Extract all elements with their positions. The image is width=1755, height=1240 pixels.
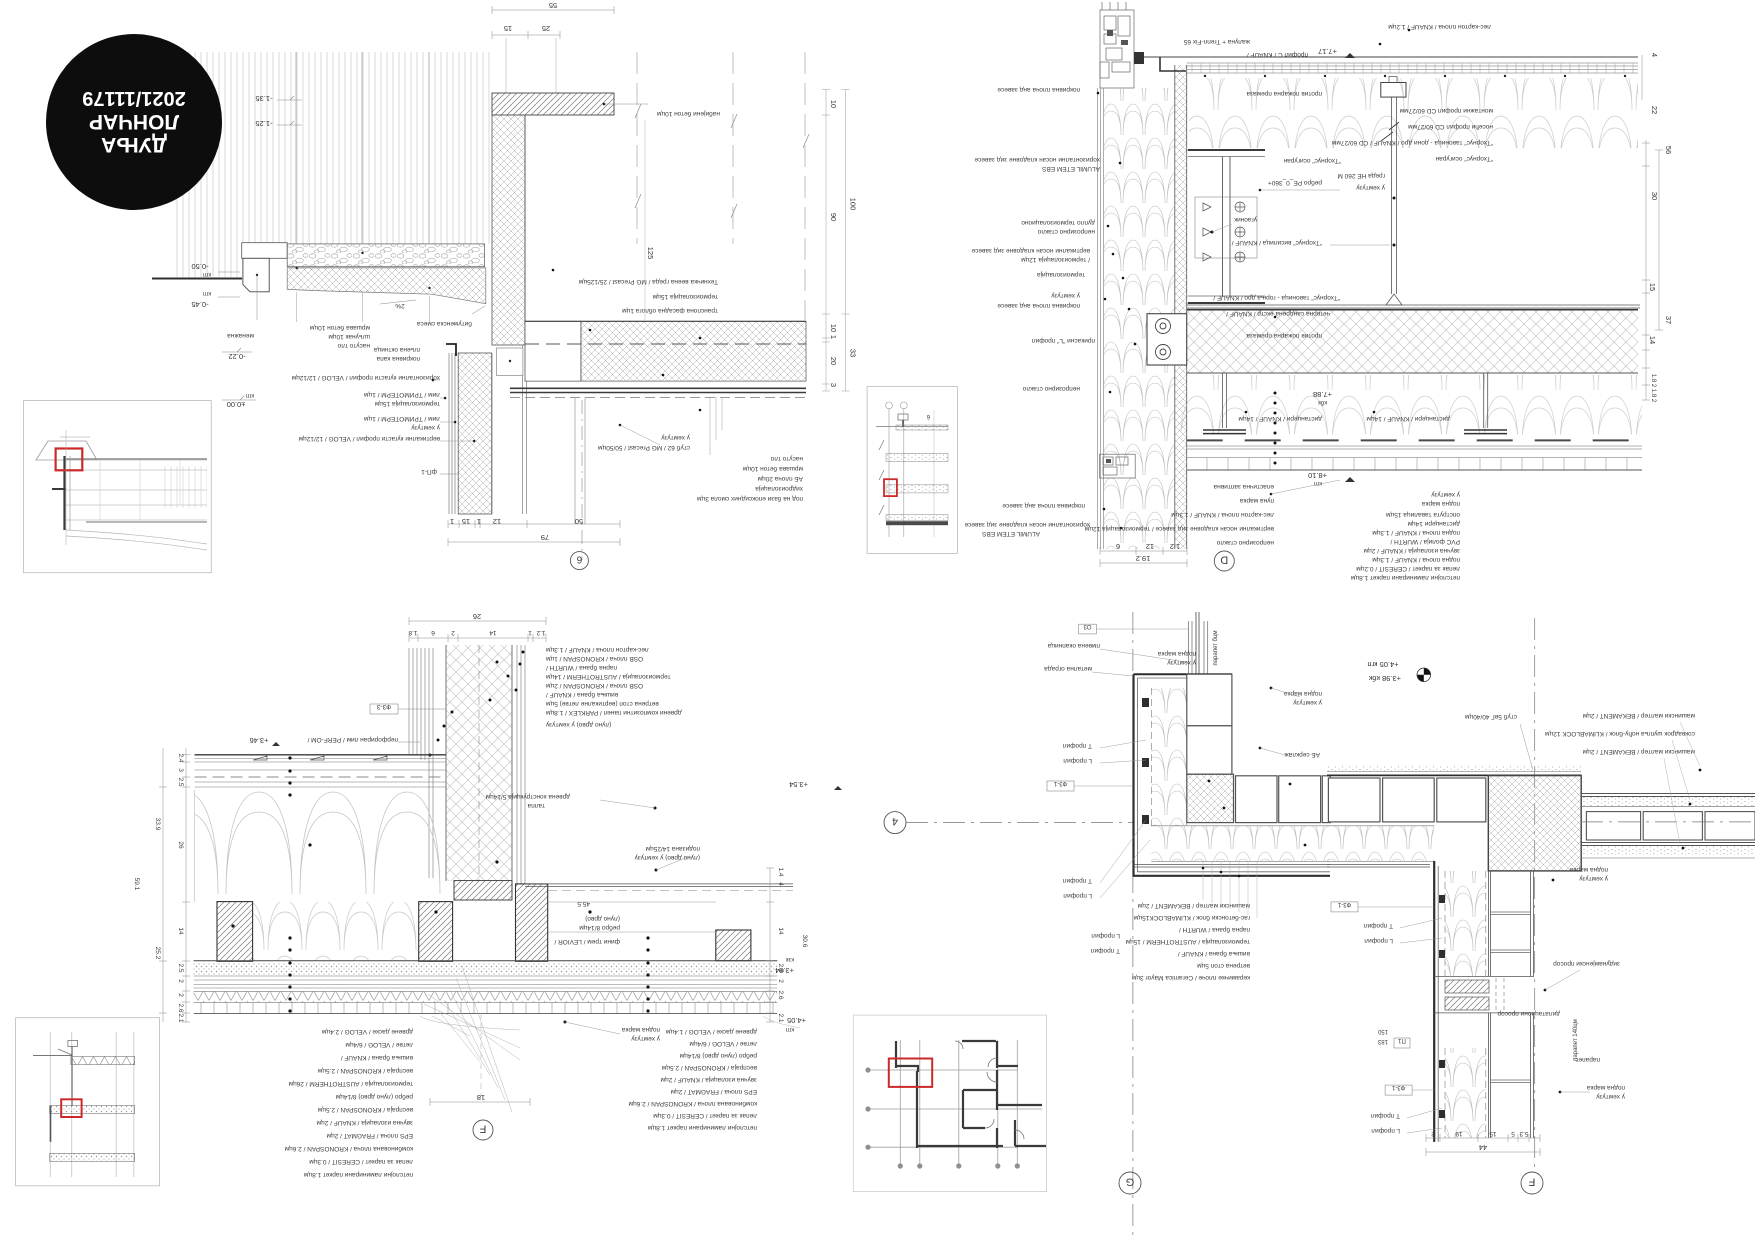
svg-text:парапет бцм: парапет бцм <box>1213 630 1219 665</box>
svg-text:менажна: менажна <box>227 332 254 339</box>
svg-text:непрозирно стакло: непрозирно стакло <box>1022 385 1080 392</box>
svg-text:кбк: кбк <box>1318 399 1327 405</box>
svg-text:у хемтузу: у хемтузу <box>1050 292 1080 299</box>
svg-text:15: 15 <box>1489 1130 1497 1137</box>
left annotation cluster of wall <box>291 374 440 381</box>
svg-text:непрозирно стакло: непрозирно стакло <box>1037 228 1095 235</box>
vertical dash-dot grid through G <box>1132 612 1134 1240</box>
leaders to lower labels <box>297 292 430 322</box>
svg-text:насуто тло: насуто тло <box>337 342 370 349</box>
svg-text:F: F <box>479 1123 486 1135</box>
second loop band with rafters <box>253 902 419 961</box>
top labels <box>1183 38 1250 45</box>
svg-text:у хемтузу: у хемтузу <box>1355 184 1385 191</box>
svg-text:15: 15 <box>1648 283 1657 291</box>
svg-text:2: 2 <box>177 979 184 983</box>
level -0.50 <box>191 262 208 271</box>
svg-text:1.2: 1.2 <box>1170 542 1180 551</box>
svg-text:у хемтузу: у хемтузу <box>1430 491 1460 498</box>
svg-text:дрвене даске / VELOG / 1.4цм: дрвене даске / VELOG / 1.4цм <box>665 1028 757 1035</box>
stamp: black circle with student name, rotated 180 <box>46 34 222 210</box>
slab bottom double line <box>510 388 806 392</box>
bottom-right cluster <box>1430 491 1460 498</box>
beam label <box>656 110 720 118</box>
leader fan lines from strata to text <box>420 966 800 1112</box>
expansion joint zone <box>1434 977 1534 1013</box>
svg-text:22: 22 <box>1650 106 1659 114</box>
svg-text:2.5: 2.5 <box>177 777 184 786</box>
svg-text:2.4: 2.4 <box>177 753 184 762</box>
svg-text:EPS плоча / FRAGMAT / 2цм: EPS плоча / FRAGMAT / 2цм <box>326 1132 413 1139</box>
svg-text:19.2: 19.2 <box>1136 554 1151 563</box>
svg-text:OSB плоча / KRONOSPAN / 1цм: OSB плоча / KRONOSPAN / 1цм <box>545 655 643 662</box>
svg-text:соквадрок шупља ноћу-блок / KL: соквадрок шупља ноћу-блок / KLIMABLOCK 1… <box>1545 730 1695 738</box>
svg-text:транспона фасадна облога 1цм: транспона фасадна облога 1цм <box>622 307 718 315</box>
svg-text:(луно дрво) у хемтузу: (луно дрво) у хемтузу <box>634 854 700 861</box>
svg-text:лим / ТРИМОТЕРМ / 1цм: лим / ТРИМОТЕРМ / 1цм <box>364 415 440 422</box>
middle band <box>50 1106 135 1114</box>
svg-text:+3.54: +3.54 <box>789 780 808 789</box>
svg-text:(луно дрво) у хемтузу: (луно дрво) у хемтузу <box>545 721 611 728</box>
ground line <box>152 278 242 280</box>
svg-text:звучна изолација / KNAUF / 2цм: звучна изолација / KNAUF / 2цм <box>660 1076 757 1083</box>
pokrivna kapa labels <box>374 346 420 353</box>
ceiling plasterboard below beams <box>1187 305 1640 308</box>
svg-text:против пожарна премаза: против пожарна премаза <box>1246 90 1322 97</box>
svg-text:талпа: талпа <box>527 802 545 809</box>
dots columns <box>231 756 649 1012</box>
drvena konstrukcija label <box>485 793 570 800</box>
facade wall cladding lines <box>1098 88 1104 549</box>
F3-1 labels <box>1331 902 1358 912</box>
svg-text:79: 79 <box>541 533 549 542</box>
right labels <box>1399 107 1493 114</box>
svg-text:20: 20 <box>829 357 838 365</box>
svg-text:6: 6 <box>576 554 582 565</box>
bottom-left cluster <box>1213 483 1274 490</box>
svg-text:хоризонтални кугасти профил /: хоризонтални кугасти профил / VELOG / 12… <box>291 374 440 381</box>
svg-text:кгп: кгп <box>786 1026 794 1032</box>
svg-text:звучна изолација / KNAUF / 2цм: звучна изолација / KNAUF / 2цм <box>1363 547 1460 554</box>
bottom dims F <box>1426 1137 1540 1139</box>
svg-text:АБ плоча 20цм: АБ плоча 20цм <box>757 475 803 482</box>
svg-text:3: 3 <box>177 768 184 772</box>
svg-text:59.1: 59.1 <box>133 878 140 891</box>
svg-text:петслојни ламинирани паркет 1.: петслојни ламинирани паркет 1.8цм <box>647 1124 757 1131</box>
+3.46 and perforirani lim <box>250 736 269 745</box>
svg-text:25: 25 <box>542 24 550 33</box>
svg-text:1: 1 <box>528 629 532 636</box>
svg-text:жалуна + Trenn-Fix 65: жалуна + Trenn-Fix 65 <box>1183 38 1250 45</box>
svg-text:хидроизолација: хидроизолација <box>755 485 803 492</box>
inner lines <box>1134 865 1331 868</box>
level -1.35 <box>255 94 272 103</box>
svg-text:парапет 140цм: парапет 140цм <box>1573 1019 1579 1061</box>
svg-text:подна марка: подна марка <box>1587 1084 1625 1091</box>
slab xps band <box>1187 310 1638 373</box>
svg-text:насуто тло: насуто тло <box>770 455 803 462</box>
svg-text:вишња брана / KNAUF /: вишња брана / KNAUF / <box>341 1054 413 1062</box>
svg-text:стуб 62 / MG Precast / 50/50цм: стуб 62 / MG Precast / 50/50цм <box>597 444 690 452</box>
svg-text:33: 33 <box>849 349 858 357</box>
dashed line <box>1187 439 1642 441</box>
stub label <box>1464 713 1517 721</box>
floor strata <box>194 960 778 962</box>
svg-text:L профил: L профил <box>1091 932 1120 939</box>
svg-text:2: 2 <box>177 993 184 997</box>
svg-text:2: 2 <box>777 979 784 983</box>
svg-text:веспраја / KRONOSPAN / 2.5цм: веспраја / KRONOSPAN / 2.5цм <box>317 1067 413 1074</box>
svg-text:кзк: кзк <box>786 956 794 962</box>
dashed stud line in wall <box>478 645 480 881</box>
svg-text:пуна марка: пуна марка <box>1240 497 1274 504</box>
svg-text:G: G <box>1126 1176 1135 1188</box>
svg-text:шљунак 10цм: шљунак 10цм <box>328 333 370 340</box>
svg-text:монтажни профил CD 60/27мм: монтажни профил CD 60/27мм <box>1399 107 1493 114</box>
terrace slab band (xps) <box>581 321 806 381</box>
svg-text:у хемтузу: у хемтузу <box>1595 1093 1625 1100</box>
svg-text:четврна сандрена екстр / KNAUF: четврна сандрена екстр / KNAUF / <box>1226 310 1330 317</box>
plasterboard layers <box>1187 446 1642 458</box>
outer wall edge thick L <box>1134 674 1331 876</box>
dim 18 and circled F <box>430 1101 530 1103</box>
svg-text:у хемтузу: у хемтузу <box>1578 875 1608 882</box>
svg-text:100: 100 <box>849 198 858 211</box>
150 / 183 / P1 labels <box>1377 1028 1388 1034</box>
zigzag strip vertical <box>1445 871 1486 976</box>
wavy strip below blocks <box>1151 826 1330 862</box>
svg-text:26: 26 <box>177 841 184 849</box>
svg-text:Ф3-1: Ф3-1 <box>1391 1084 1405 1090</box>
svg-text:у хемтузу: у хемтузу <box>1166 659 1196 666</box>
svg-text:15: 15 <box>504 24 512 33</box>
svg-text:1.8: 1.8 <box>408 629 417 636</box>
svg-text:5.3: 5.3 <box>1519 1130 1528 1137</box>
svg-text:L профил: L профил <box>1364 937 1393 944</box>
labels left <box>1047 642 1100 649</box>
svg-text:"Тхорнус" висилица / KNAUF /: "Тхорнус" висилица / KNAUF / <box>1231 239 1322 246</box>
svg-text:вишња брана / KNAUF /: вишња брана / KNAUF / <box>546 691 618 699</box>
svg-text:15: 15 <box>462 517 470 526</box>
svg-text:Ф3-1: Ф3-1 <box>1337 901 1351 907</box>
svg-text:+3.98 кбк: +3.98 кбк <box>1368 674 1401 683</box>
bottom text cluster G <box>1125 902 1250 981</box>
bitumen label <box>417 320 472 328</box>
svg-text:2.5: 2.5 <box>177 963 184 972</box>
svg-text:Т профил: Т профил <box>1370 1112 1400 1119</box>
darker vertical guide lines within hatch <box>296 52 429 243</box>
T/L profil labels next to F <box>1363 922 1393 929</box>
svg-text:L профил: L профил <box>1063 757 1092 764</box>
svg-text:5: 5 <box>1511 1130 1515 1137</box>
125 vertical dim <box>644 120 646 320</box>
right slab labels <box>578 278 718 285</box>
xps corner block <box>1187 774 1234 822</box>
right dim chain <box>769 868 771 1022</box>
svg-text:пљена октница: пљена октница <box>374 346 420 353</box>
svg-text:2: 2 <box>451 629 455 636</box>
svg-text:гас-бетонски блок / KLIMABLOCK: гас-бетонски блок / KLIMABLOCK15цм <box>1133 914 1250 922</box>
leader dots column <box>1274 392 1277 465</box>
big insulation loops region <box>195 790 445 902</box>
bottom dims <box>1100 550 1187 552</box>
concrete beam white step <box>525 321 581 381</box>
svg-text:дрвена конструкција 5/14цм: дрвена конструкција 5/14цм <box>485 793 570 800</box>
kerb upper step <box>242 243 288 259</box>
lower window profile <box>1100 454 1136 478</box>
svg-text:2: 2 <box>1431 1130 1435 1137</box>
svg-text:кгп: кгп <box>203 290 211 296</box>
svg-text:1: 1 <box>450 517 454 526</box>
svg-text:14: 14 <box>177 927 184 935</box>
beam hatched (nabijeni beton) <box>492 93 614 115</box>
roof line <box>33 1055 72 1057</box>
svg-text:3: 3 <box>829 383 838 387</box>
svg-text:ребро (луно дрво) 8/14цм: ребро (луно дрво) 8/14цм <box>335 1093 413 1101</box>
svg-text:(луно дрво): (луно дрво) <box>585 915 620 922</box>
svg-text:Т профил: Т профил <box>1062 742 1092 749</box>
level +-0.00 <box>227 400 246 409</box>
svg-text:веспраја / KRONOSPAN / 2.5цм: веспраја / KRONOSPAN / 2.5цм <box>317 1106 413 1113</box>
level +8.10 <box>1308 471 1327 480</box>
level -1.25 <box>255 119 272 128</box>
svg-text:термоизолација 15цм: термоизолација 15цм <box>374 400 440 407</box>
dashed line below slab <box>510 397 806 399</box>
svg-text:парна брана / WURTH /: парна брана / WURTH / <box>546 664 617 672</box>
svg-text:набијени бетон 10цм: набијени бетон 10цм <box>656 110 720 118</box>
parapet labels <box>1497 1010 1560 1017</box>
ceiling void insulation <box>1189 78 1638 148</box>
svg-text:Т профил: Т профил <box>1363 922 1393 929</box>
slabs <box>886 453 948 520</box>
insulation zigzag strip vertical <box>1151 688 1187 826</box>
svg-text:±0.00: ±0.00 <box>227 400 246 409</box>
svg-text:подна плоча / KNAUF / 1.3цм: подна плоча / KNAUF / 1.3цм <box>1372 556 1460 563</box>
insulation band under slab with hangers <box>1181 375 1642 434</box>
svg-text:37: 37 <box>1664 316 1673 324</box>
svg-text:30: 30 <box>1650 192 1659 200</box>
svg-text:фП-1: фП-1 <box>421 468 437 475</box>
svg-text:56: 56 <box>1664 146 1673 154</box>
steel I-beam <box>1188 149 1265 151</box>
svg-text:ветрена стоп (вертикалне летве: ветрена стоп (вертикалне летве) 5цм <box>545 700 658 707</box>
svg-text:покривна плоча анд завесе: покривна плоча анд завесе <box>1002 502 1085 509</box>
svg-text:стуб 5вГ 40/40цм: стуб 5вГ 40/40цм <box>1464 713 1517 721</box>
svg-text:1.4: 1.4 <box>777 867 784 876</box>
masonry blocks column <box>1187 674 1232 774</box>
dark corner piece at wall/ceiling <box>1134 52 1144 64</box>
L bracket with bolts <box>1147 314 1187 365</box>
svg-text:12: 12 <box>1146 542 1154 551</box>
top hatched band <box>71 1056 135 1064</box>
svg-text:1: 1 <box>477 517 481 526</box>
svg-text:4: 4 <box>777 882 784 886</box>
stone ballast band <box>287 244 484 267</box>
svg-text:+7.17: +7.17 <box>1318 47 1337 56</box>
svg-text:D: D <box>1220 554 1228 566</box>
inner corner lines <box>1327 865 1430 868</box>
svg-text:О3: О3 <box>1083 623 1092 629</box>
bottom left text column <box>284 1028 413 1178</box>
svg-text:ветрена стоп 5цм: ветрена стоп 5цм <box>1197 962 1250 969</box>
svg-text:10: 10 <box>829 100 838 108</box>
top dimension 55 <box>492 9 614 11</box>
svg-text:10: 10 <box>829 324 838 332</box>
menazna label <box>227 332 254 339</box>
svg-text:6: 6 <box>431 629 435 636</box>
svg-text:PVC фолија / WURTH /: PVC фолија / WURTH / <box>1390 538 1460 545</box>
clips on left inner face of vertical wall <box>1439 895 1445 1118</box>
svg-text:"Тхорнус" осигуран: "Тхорнус" осигуран <box>1435 155 1493 162</box>
left dim chain <box>163 748 186 1022</box>
right wing of wall <box>1581 794 1755 797</box>
rafter blocks diag hatch <box>217 902 253 962</box>
facade ticks <box>879 440 884 515</box>
svg-text:мршава бетон 10цм: мршава бетон 10цм <box>309 324 370 332</box>
svg-text:подна марка: подна марка <box>1158 650 1196 657</box>
svg-text:прикасни "L" профил: прикасни "L" профил <box>1032 337 1095 344</box>
svg-text:/ термоизолација 12цм: / термоизолација 12цм <box>1021 256 1090 263</box>
level -0.45 <box>203 290 211 296</box>
section body light lines <box>66 460 207 520</box>
svg-text:веспраја / KRONOSPAN / 2.5цм: веспраја / KRONOSPAN / 2.5цм <box>661 1064 757 1071</box>
podna marka labels <box>1570 866 1608 873</box>
svg-text:ребро (луно дрво) 8/14цм: ребро (луно дрво) 8/14цм <box>679 1052 757 1060</box>
svg-text:термоизолација: термоизолација <box>1037 271 1085 278</box>
2% slope label <box>395 302 405 309</box>
svg-text:L профил: L профил <box>1371 1127 1400 1134</box>
svg-text:183: 183 <box>1377 1038 1388 1044</box>
G bubble <box>1119 1172 1141 1194</box>
column below slab <box>575 398 585 525</box>
svg-text:термоизолација / AUSTROTHERM /: термоизолација / AUSTROTHERM / 26цм <box>288 1080 413 1087</box>
svg-text:+7.88: +7.88 <box>1313 390 1332 399</box>
svg-text:под на бази епоксидних смола: под на бази епоксидних смола 3цм <box>697 495 803 503</box>
svg-text:дистанцери 14цм: дистанцери 14цм <box>1407 520 1460 527</box>
right 3-line labels <box>1582 712 1695 719</box>
gusset plate with bolts <box>1195 197 1257 258</box>
svg-text:1: 1 <box>829 335 838 339</box>
svg-text:2.1: 2.1 <box>177 1013 184 1022</box>
wall inner face line <box>524 115 526 345</box>
svg-text:машински малтер / BEKAMENT / 2: машински малтер / BEKAMENT / 2цм <box>1137 902 1250 909</box>
labels right top <box>1284 690 1322 697</box>
svg-text:опструта тавалица 15цм: опструта тавалица 15цм <box>1385 511 1460 518</box>
svg-text:1.8 2 1.8 2: 1.8 2 1.8 2 <box>1650 374 1656 403</box>
svg-text:25.2: 25.2 <box>154 947 161 960</box>
svg-text:битуменска смеса: битуменска смеса <box>417 320 472 328</box>
right side labels for vertical wall <box>1553 960 1620 967</box>
svg-text:перфориран лим / PERF-OM /: перфориран лим / PERF-OM / <box>307 736 398 743</box>
svg-text:+8.10: +8.10 <box>1308 471 1327 480</box>
left labels <box>974 156 1100 163</box>
svg-text:OSB плоча / KRONOSPAN / 2цм: OSB плоча / KRONOSPAN / 2цм <box>545 682 643 689</box>
svg-text:звучна изолација / KNAUF / 2цм: звучна изолација / KNAUF / 2цм <box>316 1119 413 1126</box>
grid axis 4 bubble + dashed horizontal <box>884 812 906 834</box>
svg-text:"Тхорнус" осигуран: "Тхорнус" осигуран <box>1283 157 1341 164</box>
wall top dim 26 <box>409 620 546 622</box>
svg-text:14: 14 <box>777 927 784 935</box>
svg-text:Т профил: Т профил <box>1062 877 1092 884</box>
svg-text:ДУЊА: ДУЊА <box>101 133 167 156</box>
svg-text:ALUMIL ETEM EBS: ALUMIL ETEM EBS <box>1041 165 1100 172</box>
svg-text:комбинована плоча / KRONOSPAN: комбинована плоча / KRONOSPAN / 2.6цм <box>284 1145 413 1153</box>
wall below <box>50 1106 52 1142</box>
red rect <box>61 1099 81 1117</box>
svg-text:кгп: кгп <box>246 392 254 398</box>
roof trapezoid <box>36 441 97 460</box>
wall: left cladding layers <box>409 648 433 878</box>
svg-text:подна марка: подна марка <box>622 1026 660 1033</box>
stub labels <box>660 434 690 441</box>
svg-text:-0.22: -0.22 <box>228 352 245 361</box>
grid lines <box>868 1040 1042 1166</box>
svg-text:зидунамјенски просор: зидунамјенски просор <box>1553 960 1620 967</box>
svg-text:вертикални кугасти профил / VE: вертикални кугасти профил / VELOG / 12/1… <box>298 435 440 442</box>
svg-text:мршава бетон 10цм: мршава бетон 10цм <box>742 465 803 473</box>
svg-text:подна марка: подна марка <box>1570 866 1608 873</box>
interior sill box <box>497 348 523 376</box>
speckle band above blocks <box>1327 766 1581 771</box>
top edge <box>1134 673 1233 675</box>
svg-text:лес-картон плоча / KNAUF / 1.2: лес-картон плоча / KNAUF / 1.2цм <box>1388 23 1491 30</box>
svg-text:вертикални носач кладовне зид: вертикални носач кладовне зид завесе <box>971 247 1090 254</box>
svg-text:90: 90 <box>829 213 838 221</box>
plan walls dark <box>896 1041 1046 1148</box>
right level labels <box>789 780 808 789</box>
O3 label box <box>1079 624 1097 634</box>
svg-text:еластична заптивна: еластична заптивна <box>1213 483 1274 490</box>
window profile cluster top <box>1100 2 1134 88</box>
F3-3 label <box>376 703 391 710</box>
F P-1 label <box>421 468 437 475</box>
svg-text:4: 4 <box>892 815 898 827</box>
svg-text:хоризонтални носач кладовне зи: хоризонтални носач кладовне зид завесе <box>964 521 1090 528</box>
svg-text:покривна плоча анд завесе: покривна плоча анд завесе <box>997 86 1080 93</box>
svg-text:150: 150 <box>1377 1028 1388 1034</box>
wall core xps <box>446 645 512 881</box>
svg-text:угаоник: угаоник <box>1234 216 1257 223</box>
dark wall line <box>63 456 65 530</box>
facade cavity insulation <box>1104 88 1175 549</box>
hanger anchor and rod <box>1381 83 1406 98</box>
svg-text:покривна капа: покривна капа <box>376 355 420 362</box>
svg-text:+3.94: +3.94 <box>775 966 794 975</box>
svg-text:фини трем / LEVIOR /: фини трем / LEVIOR / <box>554 938 620 945</box>
svg-text:у хемтузу: у хемтузу <box>660 434 690 441</box>
svg-text:дистанцери / KNAUF / 14цм: дистанцери / KNAUF / 14цм <box>1238 415 1322 422</box>
svg-text:термоизолација 15цм: термоизолација 15цм <box>652 293 718 300</box>
svg-text:дупло термоизолационо: дупло термоизолационо <box>1021 219 1095 226</box>
svg-text:ЛОНЧАР: ЛОНЧАР <box>89 110 179 133</box>
svg-text:"Тхорнус" тавоница - горња дро: "Тхорнус" тавоница - горња дро / KNAUF / <box>1213 294 1340 301</box>
svg-text:парна брана / WURTH /: парна брана / WURTH / <box>1179 926 1250 934</box>
svg-text:парапет: парапет <box>1576 1056 1600 1063</box>
svg-text:у хемтузу: у хемтузу <box>630 1035 660 1042</box>
lower wall segment <box>1445 1048 1486 1138</box>
svg-text:термоизолација / AUSTROTHERM /: термоизолација / AUSTROTHERM / 15цм <box>1125 938 1250 945</box>
svg-text:55: 55 <box>549 1 557 10</box>
svg-text:лес-картон плоча / KNAUF / 1.3: лес-картон плоча / KNAUF / 1.3цм <box>1171 511 1274 518</box>
svg-text:2.6: 2.6 <box>177 1003 184 1012</box>
svg-text:петслојни ламинирани паркет 1.: петслојни ламинирани паркет 1.8цм <box>1350 574 1460 581</box>
svg-text:EPS плоча / FRAGMAT / 2цм: EPS плоча / FRAGMAT / 2цм <box>670 1088 757 1095</box>
red rect <box>884 479 897 496</box>
svg-text:у хемтузу: у хемтузу <box>410 424 440 431</box>
svg-text:дилатациони просор: дилатациони просор <box>1497 1010 1560 1017</box>
svg-text:носећи профил CD 60/27мм: носећи профил CD 60/27мм <box>1408 123 1493 131</box>
svg-text:2021/11179: 2021/11179 <box>82 87 185 109</box>
